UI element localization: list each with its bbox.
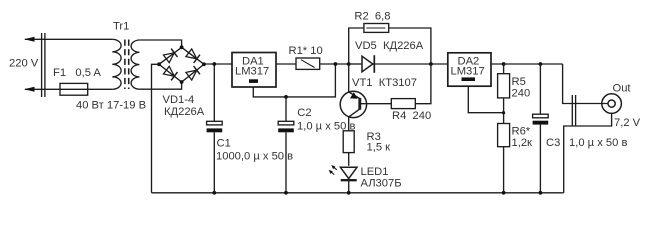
DA1 adjust tab bbox=[249, 79, 258, 83]
diode VD1 (top-left arm) bbox=[163, 49, 177, 63]
diode VD2 (top-right arm) bbox=[186, 49, 200, 63]
connector: output jack bbox=[602, 94, 622, 114]
node: adj junction bbox=[502, 111, 505, 114]
node: C2 tap on adj wire bbox=[284, 95, 288, 99]
wire: DA1 out to R1 bbox=[276, 63, 296, 65]
svg-text:Out: Out bbox=[613, 83, 632, 95]
svg-text:VD1-4: VD1-4 bbox=[163, 94, 195, 106]
fuse F1 bbox=[60, 83, 88, 95]
node: C3 tap bbox=[539, 62, 543, 66]
wire: C3 top lead bbox=[539, 64, 541, 114]
svg-text:VT1 КТ3107: VT1 КТ3107 bbox=[352, 77, 417, 89]
svg-text:C2: C2 bbox=[297, 107, 311, 119]
connector X2 plug bars bbox=[572, 95, 575, 127]
svg-text:7,2 V: 7,2 V bbox=[614, 117, 641, 129]
svg-text:LED1: LED1 bbox=[361, 166, 389, 178]
node B: after VD5 bbox=[429, 62, 433, 66]
resistor R4 bbox=[391, 99, 415, 109]
svg-text:R2 6,8: R2 6,8 bbox=[354, 11, 390, 23]
wire: secondary bottom to bridge AC bbox=[139, 82, 181, 89]
diode VD5 bbox=[349, 63, 362, 65]
wire: C3 bottom lead bbox=[539, 125, 541, 193]
node A: R1 right / adj junction bbox=[334, 62, 338, 66]
resistor R3 bbox=[343, 131, 354, 153]
LED1 (АЛ307Б) bbox=[340, 167, 357, 178]
svg-text:1000,0 µ х 50 в: 1000,0 µ х 50 в bbox=[216, 150, 293, 162]
capacitor C1 (polarized) bbox=[207, 121, 223, 125]
resistor R1 bbox=[296, 58, 320, 69]
node: VT1 emitter / R2 junction bbox=[347, 62, 351, 66]
capacitor C3 (polarized) bbox=[533, 114, 549, 118]
wire: R1 to node A bbox=[320, 63, 349, 65]
svg-text:240: 240 bbox=[512, 88, 531, 100]
LED1 emission arrows bbox=[329, 165, 337, 175]
wire: output negative return bbox=[564, 113, 612, 192]
resistor R6 bbox=[498, 124, 510, 147]
svg-text:КД226А: КД226А bbox=[164, 106, 205, 118]
node: C1 junction bbox=[212, 62, 216, 66]
capacitor C2 (polarized) bbox=[278, 121, 294, 125]
svg-text:C1: C1 bbox=[217, 138, 231, 150]
diode VD4 (bottom-right arm) bbox=[186, 66, 200, 80]
wire: R3 to LED bbox=[348, 153, 350, 166]
bridge rectifier VD1-4 diamond bbox=[159, 47, 204, 82]
resistor R5 bbox=[498, 74, 510, 98]
wire: mains bottom conductor bbox=[25, 88, 112, 90]
svg-text:R6*: R6* bbox=[512, 126, 531, 138]
wire: C1 bottom lead bbox=[213, 132, 215, 193]
svg-text:F1 0,5 A: F1 0,5 A bbox=[53, 67, 101, 79]
node: C2 on ground rail bbox=[284, 191, 288, 195]
svg-text:R1* 10: R1* 10 bbox=[289, 45, 323, 57]
node: R5 tap bbox=[502, 62, 506, 66]
wire: bridge negative down to ground rail bbox=[152, 64, 160, 193]
wire: R2 left riser bbox=[349, 28, 364, 64]
svg-text:1,2к: 1,2к bbox=[512, 137, 533, 149]
wire: R5 top lead bbox=[503, 64, 505, 74]
DA2 adjust tab bbox=[462, 77, 476, 81]
transformer Tr1 core bbox=[125, 40, 129, 90]
wire: C1 top lead bbox=[213, 64, 215, 121]
arrow: mains bottom terminal bbox=[24, 87, 35, 92]
node: bridge corners bbox=[180, 45, 184, 49]
svg-text:C3: C3 bbox=[546, 137, 560, 149]
svg-text:LM317: LM317 bbox=[235, 66, 269, 78]
wire: secondary top to bridge AC bbox=[139, 40, 181, 47]
svg-text:VD5 КД226А: VD5 КД226А bbox=[355, 40, 424, 52]
transformer Tr1 primary winding bbox=[112, 39, 121, 89]
arrow: mains top terminal bbox=[24, 37, 35, 42]
node: R6 on ground rail bbox=[502, 191, 506, 195]
wire: R6 bottom lead bbox=[503, 147, 505, 193]
wire: R4 right riser to node B bbox=[415, 64, 431, 104]
wire: R5 to R6 bbox=[503, 98, 505, 124]
wire: VT1 collector down bbox=[348, 117, 350, 131]
wire: positive rail bridge to DA1 bbox=[204, 63, 232, 65]
transistor VT1 (PNP КТ3107) bbox=[348, 64, 350, 92]
wire: DA1 adj down-right-up to node after R1 bbox=[253, 64, 335, 97]
svg-text:220 V: 220 V bbox=[9, 58, 39, 70]
svg-text:Tr1: Tr1 bbox=[113, 21, 129, 33]
svg-text:LM317: LM317 bbox=[451, 66, 485, 78]
svg-text:40 Вт 17-19 В: 40 Вт 17-19 В bbox=[76, 100, 146, 112]
wire: DA2 adj to R5/R6 junction bbox=[468, 86, 503, 113]
wire: mains top conductor bbox=[25, 38, 112, 40]
op-amp regulator DA2 box bbox=[448, 53, 491, 86]
svg-text:R5: R5 bbox=[512, 76, 526, 88]
transformer Tr1 secondary winding bbox=[131, 40, 139, 89]
op-amp regulator DA1 box bbox=[232, 53, 276, 88]
svg-text:1,0 µ х 50 в: 1,0 µ х 50 в bbox=[297, 121, 355, 133]
svg-text:1,5 к: 1,5 к bbox=[367, 142, 391, 154]
svg-text:1,0 µ х 50 в: 1,0 µ х 50 в bbox=[569, 137, 627, 149]
wire: output positive step-down bbox=[563, 64, 608, 104]
node: C1 on ground rail bbox=[212, 191, 216, 195]
wire: C2 bottom lead bbox=[285, 132, 287, 193]
wire: bottom ground rail bbox=[152, 192, 564, 194]
node: C3 on ground rail bbox=[539, 191, 543, 195]
resistor R2 bbox=[364, 24, 389, 33]
wire: C2 top lead bbox=[285, 97, 287, 121]
wire: DA2 out rail bbox=[491, 63, 563, 65]
svg-text:АЛ307Б: АЛ307Б bbox=[361, 178, 402, 190]
node: LED on ground rail bbox=[347, 191, 351, 195]
connector X1 plug bars bbox=[42, 33, 45, 97]
diode VD3 (bottom-left arm) bbox=[163, 66, 177, 80]
svg-text:R4 240: R4 240 bbox=[392, 110, 431, 122]
wire: R2 right to node B riser bbox=[389, 28, 431, 64]
